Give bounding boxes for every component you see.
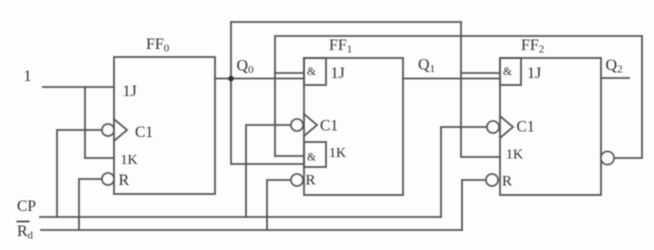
svg-text:1K: 1K [121,153,138,168]
FF2 R bubble [486,174,498,186]
wire: Rd to FF1 R [267,180,291,230]
svg-text:&: & [307,66,316,78]
wire: Q2-bar feedback loop [275,36,642,158]
flip-flop FF1 box [304,58,403,195]
FF1 C1 dynamic-input wedge [304,114,317,136]
AND gate box at FF1 1J [304,58,326,85]
wire: Rd to FF2 R [462,180,486,230]
FF2 Q2-bar output bubble [601,152,614,165]
svg-text:&: & [503,66,512,78]
wire: top bus from Q0 to FF2 [231,21,461,23]
wire: branch to FF2 J-AND upper input [461,72,500,74]
wire: drop of top Q0 bus into FF2 1K [461,22,500,157]
wire: Q0 riser/dropper vertical to FF1 K-AND input [231,22,304,164]
wire: Q2 output stub [601,77,629,79]
wire: Q1 output of FF1 to FF2 J-AND input [403,78,500,80]
svg-text:R: R [502,174,512,190]
FF2 C1 bubble [487,121,499,133]
svg-text:&: & [307,152,316,164]
svg-text:1K: 1K [506,148,523,163]
wire: branch of constant-1 down to FF0 1K [85,87,114,158]
svg-text:1K: 1K [329,146,346,161]
svg-text:Rd: Rd [17,223,34,242]
flip-flop FF0 box [114,57,215,194]
svg-text:R: R [119,172,130,189]
svg-text:1J: 1J [123,83,137,100]
AND gate box at FF1 1K [304,142,326,167]
svg-text:1J: 1J [527,65,541,82]
FF2 C1 dynamic-input wedge [500,116,513,138]
wire: Rd bus line [41,229,462,231]
flip-flop FF2 box [500,58,601,195]
svg-text:Q0: Q0 [237,58,255,77]
svg-text:FF1: FF1 [329,37,352,56]
svg-text:C1: C1 [135,124,153,141]
svg-text:Q1: Q1 [418,57,435,76]
wire: CP to FF2 C1 [441,127,487,217]
FF0 R bubble [102,173,114,185]
wire: CP to FF1 C1 [246,125,291,217]
wire: CP bus line [40,216,441,218]
FF1 C1 bubble [291,119,303,131]
svg-text:C1: C1 [517,119,535,136]
svg-text:1: 1 [24,68,32,85]
svg-text:CP: CP [17,198,36,215]
svg-text:Q2: Q2 [606,57,623,76]
svg-text:R: R [306,173,316,189]
wire: CP to FF0 C1 [57,130,102,217]
AND gate box at FF2 1J [500,58,521,85]
overbar of Rd label [17,221,30,223]
node: Q0 junction dot [228,76,234,82]
svg-text:FF0: FF0 [146,36,170,55]
wire: Q0 output of FF0 to FF1 J-AND input [215,78,304,80]
FF1 R bubble [291,174,303,186]
svg-text:C1: C1 [320,118,338,135]
wire: K-AND upper input of FF1 [275,155,304,157]
svg-text:1J: 1J [331,65,345,82]
FF0 C1 bubble [102,124,114,136]
wire: Rd to FF0 R [79,179,102,230]
svg-text:FF2: FF2 [521,37,544,56]
FF0 C1 dynamic-input wedge [114,119,127,141]
wire: feedback branch to FF1 J-AND upper input [275,72,304,74]
wire: constant-1 input to FF0 1J [43,86,114,88]
